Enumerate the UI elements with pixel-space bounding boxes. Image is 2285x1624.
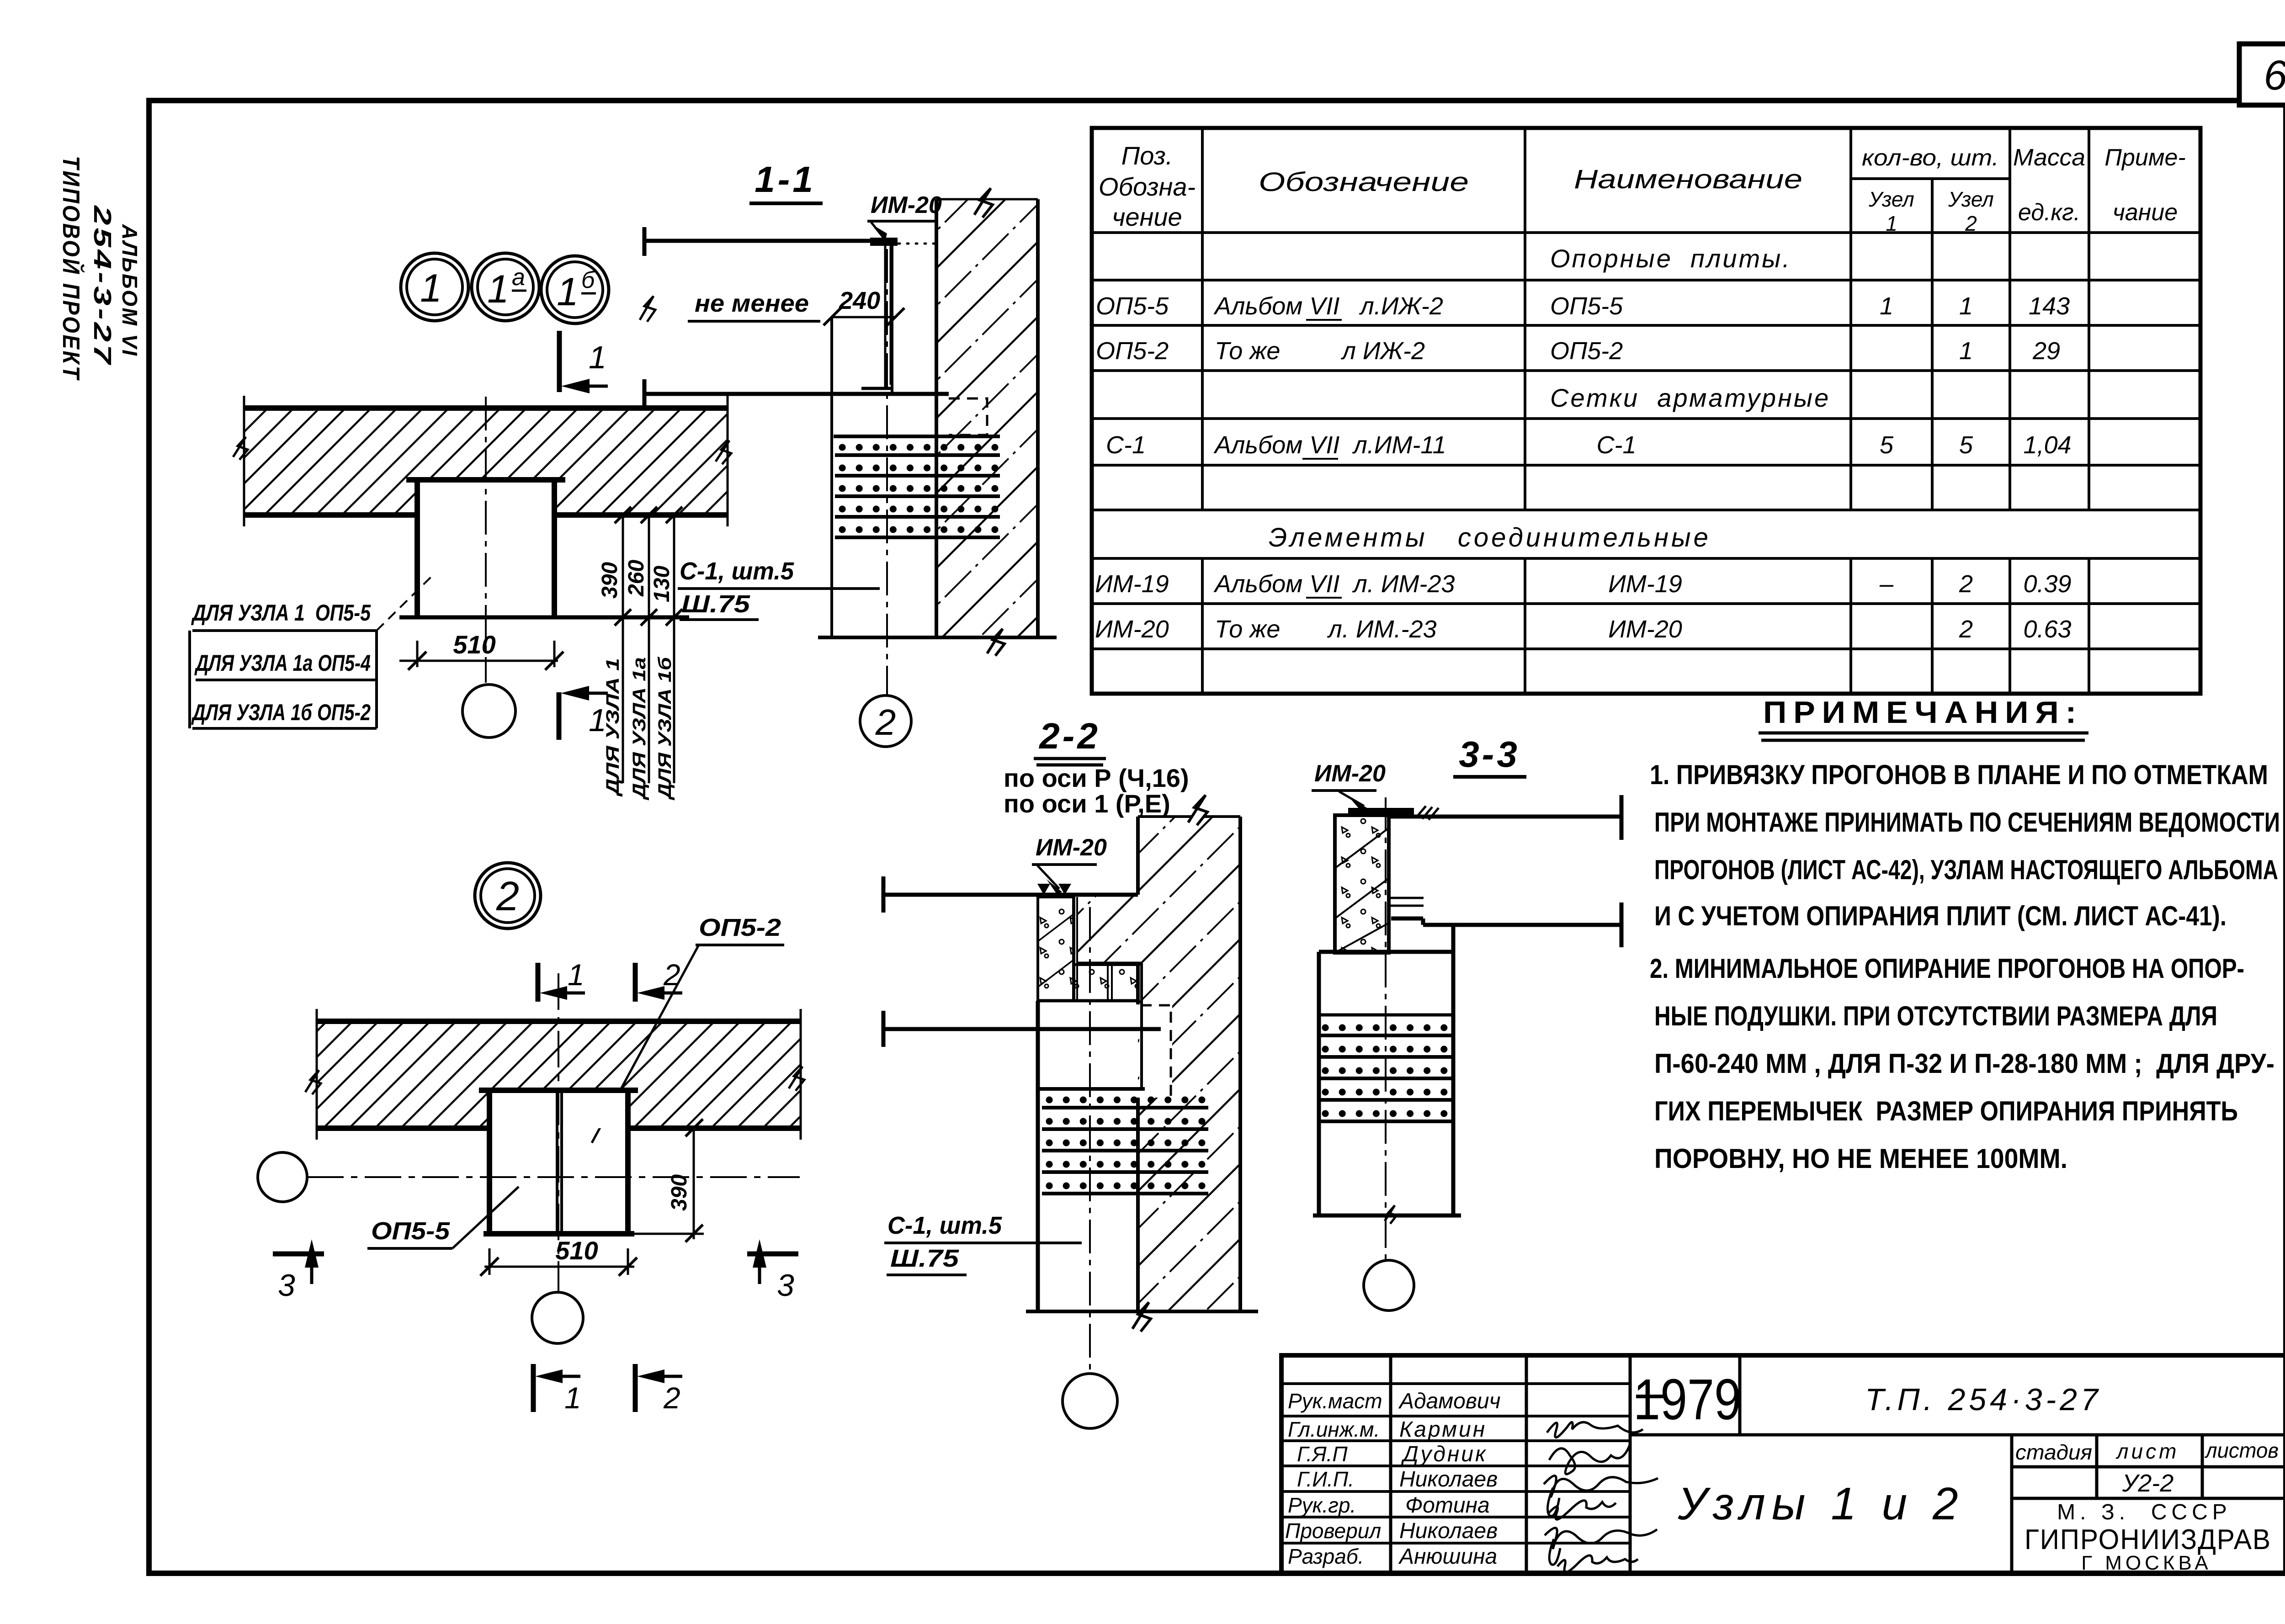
anchor ИМ-20 plate	[870, 238, 898, 246]
slab break mark left	[233, 437, 248, 460]
svg-text:Альбом VII л. ИМ-23: Альбом VII л. ИМ-23	[1213, 570, 1455, 598]
svg-text:ОП5-2: ОП5-2	[699, 914, 781, 941]
svg-text:ИМ-20: ИМ-20	[1095, 616, 1169, 643]
lintel (speckled concrete)	[1335, 815, 1389, 953]
svg-text:510: 510	[555, 1236, 598, 1265]
svg-text:2: 2	[1959, 570, 1973, 598]
svg-text:390: 390	[667, 1174, 691, 1211]
wall bottom break mark	[987, 629, 1004, 656]
node marker circle 1б	[541, 256, 609, 324]
wall faces	[1138, 817, 1240, 1311]
svg-text:1: 1	[589, 702, 606, 738]
purlin beam (1-1)	[644, 241, 892, 394]
svg-text:П-60-240 ММ , ДЛЯ П-32 И П-28-: П-60-240 ММ , ДЛЯ П-32 И П-28-180 ММ ; Д…	[1654, 1048, 2274, 1079]
section cut flag 2 (top)	[633, 963, 638, 1002]
svg-text:Рук.маст: Рук.маст	[1288, 1389, 1382, 1413]
svg-text:2: 2	[663, 1381, 680, 1415]
notes title double underline	[1759, 733, 2088, 740]
svg-text:ГИПРОНИИЗДРАВ: ГИПРОНИИЗДРАВ	[2025, 1524, 2271, 1555]
svg-text:С-1: С-1	[1596, 431, 1636, 459]
beam hook near lintel	[1391, 898, 1424, 906]
leader ОП5-2 to plate	[592, 945, 699, 1143]
signature squiggles	[1544, 1422, 1658, 1572]
svg-text:Адамович: Адамович	[1398, 1389, 1500, 1413]
svg-text:лист: лист	[2115, 1439, 2179, 1463]
svg-text:2. МИНИМАЛЬНОЕ ОПИРАНИЕ ПРОГОН: 2. МИНИМАЛЬНОЕ ОПИРАНИЕ ПРОГОНОВ НА ОПОР…	[1650, 953, 2244, 984]
node circle below 2-2	[1063, 1374, 1117, 1428]
pier left face	[1036, 1001, 1040, 1311]
svg-text:ГИХ ПЕРЕМЫЧЕК РАЗМЕР ОПИРАНИЯ: ГИХ ПЕРЕМЫЧЕК РАЗМЕР ОПИРАНИЯ ПРИНЯТЬ	[1654, 1096, 2238, 1126]
concrete infill bottom band	[1074, 965, 1138, 1001]
svg-text:по оси Р (Ч,16): по оси Р (Ч,16)	[1004, 764, 1189, 792]
anchor plate on lintel (black)	[1348, 808, 1414, 815]
svg-text:С-1: С-1	[1106, 431, 1146, 459]
svg-text:29: 29	[2032, 337, 2060, 365]
svg-text:Обозначение: Обозначение	[1259, 167, 1469, 197]
leader arrow to anchor	[871, 222, 883, 238]
ground line (2-2)	[1026, 1310, 1258, 1313]
centre line (dash-dot) 3-3	[1385, 797, 1387, 1260]
masonry wall (2-2) hatched	[1138, 817, 1240, 1311]
svg-text:1: 1	[564, 1381, 581, 1415]
svg-text:3-3: 3-3	[1459, 734, 1520, 775]
hidden plate outline (dashed)	[949, 398, 987, 435]
dimension extension lines 390/260/130	[623, 514, 674, 783]
beam left end ticks	[882, 876, 886, 1047]
beam (3-3)	[1389, 817, 1621, 925]
table row lines	[1092, 233, 2200, 649]
section cut flag 3 (right)	[747, 1252, 798, 1257]
wall bottom break mark	[1132, 1302, 1151, 1332]
dash through 1979	[1636, 1395, 1663, 1398]
svg-text:ДЛЯ УЗЛА 1а ОП5-4: ДЛЯ УЗЛА 1а ОП5-4	[194, 650, 371, 676]
svg-text:Приме-: Приме-	[2104, 144, 2185, 171]
svg-text:стадия: стадия	[2015, 1440, 2092, 1464]
svg-text:Г МОСКВА: Г МОСКВА	[2081, 1552, 2212, 1574]
wall top break mark	[1188, 795, 1207, 825]
vertical axis line (dash-dot)	[558, 973, 559, 1292]
svg-text:б: б	[581, 267, 595, 293]
svg-text:ПРИМЕЧАНИЯ:: ПРИМЕЧАНИЯ:	[1763, 695, 2083, 730]
svg-text:Ш.75: Ш.75	[681, 590, 750, 618]
slab top edge	[317, 1019, 801, 1024]
svg-text:ИМ-19: ИМ-19	[1095, 570, 1169, 598]
svg-text:–: –	[1879, 570, 1894, 598]
svg-text:1-1: 1-1	[755, 159, 816, 200]
svg-text:ОП5-2: ОП5-2	[1096, 337, 1169, 365]
svg-text:ИМ-19: ИМ-19	[1608, 570, 1682, 598]
underline marks for roman VII	[1302, 320, 1342, 598]
svg-text:1: 1	[1959, 292, 1973, 320]
table column line 1	[1201, 128, 1204, 694]
svg-text:М. З. СССР: М. З. СССР	[2057, 1500, 2232, 1524]
slab break mark right	[789, 1067, 804, 1091]
svg-text:Поз.: Поз.	[1121, 141, 1173, 170]
node marker circle 2	[475, 863, 541, 929]
title block verticals	[1391, 1355, 2202, 1573]
svg-text:5: 5	[1880, 431, 1894, 459]
svg-text:Дудник: Дудник	[1401, 1442, 1488, 1466]
svg-text:0.63: 0.63	[2023, 616, 2071, 643]
svg-text:листов: листов	[2204, 1438, 2279, 1462]
svg-text:ДЛЯ УЗЛА 1 ОП5-5: ДЛЯ УЗЛА 1 ОП5-5	[191, 600, 371, 626]
svg-text:1: 1	[589, 340, 606, 375]
svg-text:То же л ИЖ-2: То же л ИЖ-2	[1215, 337, 1425, 365]
svg-text:Разраб.: Разраб.	[1288, 1544, 1364, 1568]
section cut flag 3 (left)	[273, 1252, 324, 1257]
svg-text:кол-во, шт.: кол-во, шт.	[1862, 145, 1999, 170]
node circle below plan	[462, 685, 515, 738]
table column line 4 (узел1/узел2 divider)	[1931, 179, 1934, 694]
svg-text:2-2: 2-2	[1038, 716, 1100, 756]
anchor strap	[885, 246, 891, 387]
leader ОП5-5	[452, 1187, 519, 1248]
wall top break mark	[974, 188, 993, 218]
node circle 2 below section 1-1	[860, 695, 911, 747]
svg-text:6: 6	[2264, 52, 2285, 99]
svg-text:ДЛЯ УЗЛА 1б: ДЛЯ УЗЛА 1б	[655, 657, 675, 801]
svg-text:390: 390	[598, 562, 622, 599]
svg-text:Николаев: Николаев	[1399, 1519, 1498, 1543]
svg-text:Альбом VII л.ИЖ-2: Альбом VII л.ИЖ-2	[1213, 292, 1443, 320]
joint double lines	[1073, 897, 1112, 1001]
svg-text:ОП5-5: ОП5-5	[1550, 292, 1623, 320]
horizontal axis line (dash-dot)	[307, 1176, 800, 1178]
svg-text:2: 2	[875, 702, 896, 743]
svg-text:Николаев: Николаев	[1399, 1467, 1498, 1491]
svg-text:ед.кг.: ед.кг.	[2018, 199, 2080, 226]
slab edge extension ticks	[317, 1009, 801, 1140]
svg-text:Анюшина: Анюшина	[1398, 1544, 1497, 1569]
plate end hatch marks	[1416, 806, 1439, 820]
mesh zone top line (3-3)	[1319, 1014, 1453, 1017]
svg-text:Рук.гр.: Рук.гр.	[1288, 1493, 1356, 1517]
svg-text:Опорные плиты.: Опорные плиты.	[1550, 244, 1791, 273]
svg-text:3: 3	[278, 1268, 295, 1303]
svg-text:Узлы 1 и 2: Узлы 1 и 2	[1677, 1478, 1964, 1529]
svg-text:260: 260	[624, 560, 648, 597]
svg-text:С-1, шт.5: С-1, шт.5	[680, 557, 794, 585]
beam right end ticks	[1620, 795, 1624, 947]
svg-text:510: 510	[453, 630, 495, 659]
svg-text:ОП5-2: ОП5-2	[1550, 337, 1623, 365]
rebar mesh rows (1-1): 5 bars with dots	[835, 447, 1000, 537]
svg-text:Наименование: Наименование	[1574, 165, 1802, 194]
pier bottom line (3-3)	[1313, 1214, 1461, 1218]
svg-text:1. ПРИВЯЗКУ ПРОГОНОВ В ПЛАНЕ И: 1. ПРИВЯЗКУ ПРОГОНОВ В ПЛАНЕ И ПО ОТМЕТК…	[1650, 759, 2268, 790]
svg-text:1: 1	[487, 267, 509, 311]
svg-text:чение: чение	[1112, 202, 1182, 231]
extension line left of pier	[830, 317, 833, 637]
lintel diagonal lines	[1335, 828, 1389, 953]
centre line vertical (dash-dot)	[485, 397, 487, 683]
svg-text:ОП5-5: ОП5-5	[371, 1217, 450, 1245]
svg-text:1: 1	[557, 270, 579, 314]
bottom break tick	[1385, 1205, 1397, 1224]
masonry wall (1-1) hatched	[936, 199, 1038, 637]
svg-text:Элементы соединительные: Элементы соединительные	[1269, 523, 1711, 552]
svg-text:2: 2	[1965, 212, 1977, 235]
svg-text:ОП5-5: ОП5-5	[1096, 292, 1169, 320]
plate (column) outline node 2	[489, 1090, 628, 1234]
svg-text:143: 143	[2029, 292, 2070, 320]
mesh zone top line	[1038, 1087, 1145, 1091]
dotted projection line	[898, 243, 935, 245]
centre line of anchor (dash-dot)	[886, 249, 888, 695]
white pocket region	[1139, 1004, 1172, 1098]
svg-text:Обозна-: Обозна-	[1099, 172, 1196, 201]
svg-text:Фотина: Фотина	[1405, 1493, 1490, 1518]
section cut flag 1 (bottom)	[531, 1364, 536, 1412]
table header sub-line	[1851, 177, 2010, 180]
plate right short face	[1140, 963, 1143, 1089]
section cut flag 2 (bottom)	[633, 1364, 638, 1412]
leader from label box to plate	[377, 573, 435, 631]
title block name-rows horizontals	[1281, 1384, 1630, 1543]
svg-text:ТИПОВОЙ ПРОЕКТ: ТИПОВОЙ ПРОЕКТ	[58, 156, 85, 381]
svg-text:НЫЕ ПОДУШКИ. ПРИ ОТСУТСТВИИ РА: НЫЕ ПОДУШКИ. ПРИ ОТСУТСТВИИ РАЗМЕРА ДЛЯ	[1654, 1001, 2217, 1031]
beam left end ticks	[643, 227, 647, 408]
wall faces	[936, 199, 1038, 637]
pier (3-3) outline	[1319, 925, 1453, 1215]
slab top edge	[244, 405, 728, 411]
svg-text:2: 2	[663, 958, 680, 992]
beam left break mark	[640, 296, 655, 322]
node circle below node2	[532, 1292, 583, 1343]
plate top edge	[406, 477, 565, 483]
svg-text:Г.Я.П: Г.Я.П	[1297, 1442, 1348, 1466]
svg-text:130: 130	[650, 566, 674, 602]
svg-text:Кармин: Кармин	[1399, 1417, 1487, 1442]
pier ground line	[818, 636, 1057, 639]
wall top cut edge	[1138, 815, 1240, 818]
plate bottom edge / dim line	[399, 616, 689, 620]
svg-text:2: 2	[1959, 616, 1973, 643]
table column line 6	[2088, 128, 2090, 694]
dim ticks on slab bottom	[615, 507, 682, 626]
purlin beam (2-2)	[883, 895, 1038, 1029]
svg-text:ПОРОВНУ, НО НЕ МЕНЕЕ 100ММ.: ПОРОВНУ, НО НЕ МЕНЕЕ 100ММ.	[1654, 1143, 2067, 1174]
slab bottom edge (interrupted)	[317, 1125, 801, 1131]
svg-text:1: 1	[1959, 337, 1973, 365]
svg-text:И С УЧЕТОМ ОПИРАНИЯ ПЛИТ (СМ.: И С УЧЕТОМ ОПИРАНИЯ ПЛИТ (СМ. ЛИСТ АС-41…	[1654, 901, 2227, 931]
svg-text:не менее: не менее	[695, 290, 809, 317]
dimension 390 (node 2)	[693, 1128, 695, 1239]
table column line 5	[2009, 128, 2011, 694]
rebar mesh rows (2-2)	[1042, 1100, 1208, 1194]
svg-text:1: 1	[1880, 292, 1893, 320]
components table outer border	[1092, 128, 2200, 694]
svg-text:У2-2: У2-2	[2122, 1470, 2174, 1497]
svg-text:Ш.75: Ш.75	[890, 1245, 959, 1272]
svg-text:3: 3	[777, 1268, 794, 1303]
svg-text:ИМ-20: ИМ-20	[1608, 616, 1682, 643]
svg-text:ПРОГОНОВ (ЛИСТ АС-42), УЗЛАМ Н: ПРОГОНОВ (ЛИСТ АС-42), УЗЛАМ НАСТОЯЩЕГО …	[1654, 854, 2278, 885]
svg-text:ИМ-20: ИМ-20	[1036, 834, 1107, 861]
corbel step edge	[1077, 962, 1141, 965]
slab edge extension ticks	[244, 396, 728, 526]
support plate (column) outline	[417, 480, 554, 618]
svg-text:1: 1	[568, 958, 585, 992]
centre line (dash-dot) 2-2	[1089, 907, 1091, 1373]
rebar mesh rows (3-3)	[1319, 1028, 1453, 1121]
svg-text:Альбом VII л.ИМ-11: Альбом VII л.ИМ-11	[1213, 431, 1446, 459]
node marker circle 1а	[472, 253, 539, 321]
beam end face	[891, 241, 893, 394]
section cut flag 1 (upper)	[557, 331, 562, 392]
svg-text:1: 1	[1886, 212, 1897, 235]
concrete infill tall part	[1038, 897, 1074, 1001]
wall top cut edge	[936, 198, 1038, 201]
section cut flag 1 (lower)	[557, 692, 562, 740]
svg-text:1,04: 1,04	[2023, 431, 2071, 459]
title block horizontals right part	[1630, 1435, 2285, 1498]
plate centre double line	[557, 1090, 562, 1234]
svg-text:ДЛЯ УЗЛА 1б ОП5-2: ДЛЯ УЗЛА 1б ОП5-2	[191, 700, 371, 725]
svg-text:ИМ-20: ИМ-20	[1314, 760, 1386, 787]
svg-text:ИМ-20: ИМ-20	[871, 192, 942, 218]
corbel masonry band	[1077, 895, 1138, 963]
svg-text:254-3-27: 254-3-27	[89, 205, 116, 366]
svg-text:1979: 1979	[1633, 1367, 1741, 1432]
svg-text:С-1, шт.5: С-1, шт.5	[887, 1212, 1002, 1239]
svg-text:ДЛЯ УЗЛА 1а: ДЛЯ УЗЛА 1а	[629, 657, 649, 801]
axis circle left	[258, 1152, 307, 1202]
svg-text:2: 2	[496, 874, 519, 919]
svg-text:Гл.инж.м.: Гл.инж.м.	[1288, 1417, 1380, 1441]
slab break mark right	[716, 440, 731, 464]
svg-text:Узел: Узел	[1868, 187, 1914, 211]
svg-text:АЛЬБОМ VI: АЛЬБОМ VI	[118, 224, 142, 357]
slab hatched (plan node 2)	[317, 1021, 801, 1128]
svg-text:0.39: 0.39	[2023, 570, 2071, 598]
slab bottom edge (interrupted by column)	[244, 512, 728, 518]
svg-text:ПРИ МОНТАЖЕ ПРИНИМАТЬ ПО СЕЧЕН: ПРИ МОНТАЖЕ ПРИНИМАТЬ ПО СЕЧЕНИЯМ ВЕДОМО…	[1654, 807, 2280, 838]
title block outer border	[1281, 1355, 2285, 1573]
svg-text:Проверил: Проверил	[1285, 1519, 1381, 1543]
table column line 3	[1849, 128, 1852, 694]
svg-text:по оси 1 (Р,Е): по оси 1 (Р,Е)	[1004, 789, 1170, 818]
svg-text:Сетки арматурные: Сетки арматурные	[1550, 383, 1830, 412]
svg-text:Масса: Масса	[2013, 144, 2085, 171]
dimension 510 (node 2)	[484, 1266, 634, 1268]
svg-text:а: а	[512, 264, 525, 291]
table column line 2	[1524, 128, 1526, 694]
section cut flag 1 (top)	[536, 963, 541, 1002]
node circle below 3-3	[1364, 1260, 1414, 1311]
slab break mark left	[305, 1070, 321, 1094]
node marker circle 1	[401, 253, 468, 321]
dimension 510	[399, 660, 558, 662]
hidden pocket dashed outline	[1141, 1005, 1171, 1097]
plate band lines	[1038, 999, 1138, 1003]
svg-text:Г.И.П.: Г.И.П.	[1297, 1467, 1354, 1491]
page number box	[2239, 44, 2285, 105]
svg-text:Узел: Узел	[1948, 187, 1994, 211]
svg-text:чание: чание	[2113, 199, 2178, 226]
svg-text:То же л. ИМ.-23: То же л. ИМ.-23	[1215, 616, 1437, 643]
svg-text:Т.П. 254·3-27: Т.П. 254·3-27	[1865, 1382, 2102, 1417]
svg-text:5: 5	[1959, 431, 1973, 459]
anchor triangles on beam top	[1037, 884, 1071, 895]
svg-text:1: 1	[420, 266, 442, 310]
slab hatched (plan)	[244, 408, 728, 515]
mesh zone top line	[834, 435, 1000, 438]
svg-text:240: 240	[839, 287, 880, 314]
